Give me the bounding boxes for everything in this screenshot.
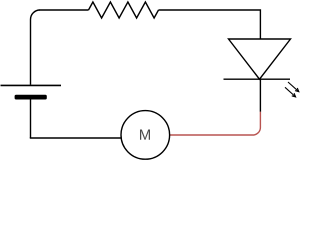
wire: top-left rounded corner + left vertical from battery (31, 10, 41, 85)
resistor R1 (89, 2, 159, 18)
LED D1 triangle (229, 39, 291, 79)
wire: top horizontal right segment to LED (159, 10, 261, 39)
battery B1 negative plate (short thick) (15, 95, 47, 100)
wire: bottom horizontal to motor (31, 137, 122, 140)
LED light arrow 1 (upper) (288, 82, 299, 92)
wire: LED cathode vertical (black) (259, 79, 261, 112)
LED D1 cathode bar (224, 78, 291, 80)
wire: battery bottom vertical (30, 100, 32, 139)
wire: red wire from LED to motor (170, 112, 261, 135)
wire: top horizontal left segment to resistor (40, 9, 89, 11)
motor U1 label M (140, 130, 150, 140)
LED light arrow 2 (lower) (285, 87, 296, 97)
motor U1 circle (121, 111, 170, 160)
battery B1 positive plate (long thin) (1, 84, 62, 86)
